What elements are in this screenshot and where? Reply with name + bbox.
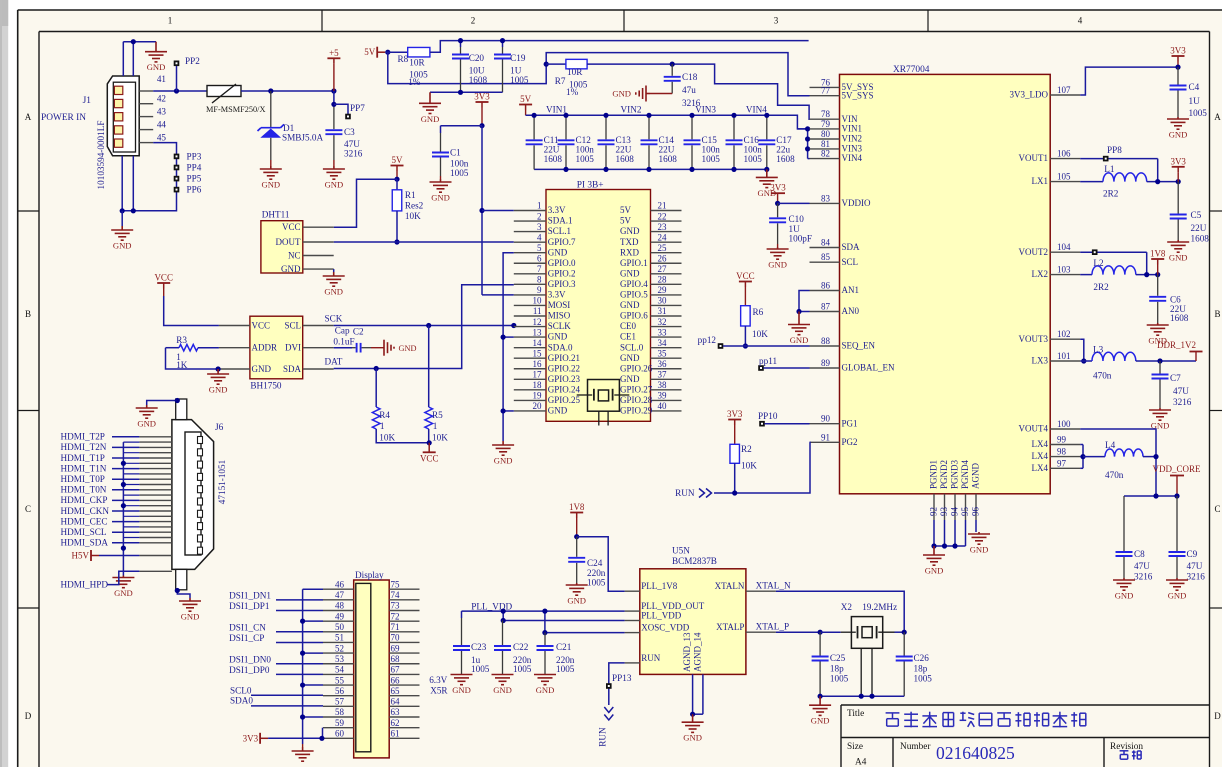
junction R5 top [426, 323, 431, 328]
wire ADDR loop to GND pin [166, 348, 219, 369]
ground below C9 [1166, 578, 1188, 590]
wire 5V down to R7 branch [388, 52, 810, 95]
svg-text:30: 30 [658, 296, 668, 306]
capacitor C22 riser [502, 611, 504, 620]
wire DSI1_CP [276, 641, 323, 643]
wire LX4 to L4 [1083, 456, 1105, 458]
svg-text:XTAL_P: XTAL_P [756, 622, 789, 632]
svg-text:GND: GND [324, 287, 343, 297]
junction VOUT4 node [1153, 493, 1158, 498]
svg-text:1U: 1U [1189, 96, 1201, 106]
pins 42-45 stubs [139, 103, 153, 105]
resistor R1 [396, 179, 398, 190]
ground at AN pins [788, 312, 810, 335]
wire VOUT2 with pad [1080, 251, 1147, 253]
svg-text:GPIO.29: GPIO.29 [620, 406, 653, 416]
PI3B+ pin 16 GPIO.22 [514, 368, 546, 370]
svg-text:47U: 47U [1187, 561, 1203, 571]
capacitor C20 [460, 41, 462, 47]
wire Display pin 55 gnd [303, 684, 323, 686]
junction at J1 top [131, 39, 136, 44]
svg-text:79: 79 [821, 119, 831, 129]
junction L1 output [1176, 179, 1181, 184]
PGND gnd bus [933, 520, 935, 546]
svg-text:GND: GND [209, 385, 228, 395]
svg-text:XTALN: XTALN [715, 581, 745, 591]
PI3B+ pin 19 GPIO.25 [514, 399, 546, 401]
junction 3V3 at pin1 [479, 208, 484, 213]
svg-text:18p: 18p [914, 664, 928, 674]
ground below C5 [1167, 240, 1189, 252]
wire fuse to D1/C3 node [241, 90, 334, 92]
svg-text:SDA.1: SDA.1 [548, 216, 573, 226]
svg-text:L3: L3 [1093, 345, 1104, 355]
svg-text:22U: 22U [659, 145, 675, 155]
svg-text:PGND3: PGND3 [950, 459, 960, 489]
junction BH1750 gnd [216, 366, 221, 371]
svg-text:104: 104 [1057, 242, 1071, 252]
ground at VIN bus end [756, 169, 778, 187]
svg-text:70: 70 [391, 633, 401, 643]
svg-text:DSI1_DN1: DSI1_DN1 [229, 590, 271, 600]
ground below C20/C19 bus [419, 92, 441, 113]
svg-text:47U: 47U [344, 139, 360, 149]
PI3B+ pin 15 GPIO.21 [514, 357, 546, 359]
wire pp11 to pin 89 [764, 367, 810, 369]
svg-text:100n: 100n [450, 159, 469, 169]
XR77004 pin 81 VIN3 [810, 148, 840, 150]
PI3B+ pin 14 SDA.0 [514, 347, 546, 349]
svg-text:3V3: 3V3 [727, 409, 743, 419]
capacitor C7 [1159, 361, 1161, 374]
svg-text:A: A [25, 112, 32, 122]
svg-text:LX3: LX3 [1032, 356, 1049, 366]
svg-text:A: A [1214, 112, 1221, 122]
wire L3 to DDR_1V2 [1136, 360, 1196, 362]
wire to PI pin9 [482, 294, 514, 296]
junction D1 top [268, 88, 273, 93]
junctions X2 legs [859, 694, 864, 699]
ground below J1 [111, 226, 133, 240]
U5N pin XOSC_VDD [625, 632, 640, 634]
testpoint PP4 [174, 165, 180, 171]
junction C26 top [902, 630, 907, 635]
svg-text:pp11: pp11 [759, 356, 777, 366]
Display pin 58 [323, 716, 354, 718]
svg-text:GPIO.0: GPIO.0 [548, 258, 576, 268]
svg-text:GPIO.28: GPIO.28 [620, 395, 653, 405]
svg-text:VIN1: VIN1 [842, 124, 863, 134]
svg-text:C: C [25, 504, 31, 514]
ground below U5N [682, 714, 704, 732]
PI3B+ pin 40 GPIO.29 [651, 410, 682, 412]
ground at J1 top [145, 42, 167, 62]
svg-text:66: 66 [391, 675, 401, 685]
resistor R3 on ADDR [166, 347, 180, 349]
svg-text:DSI1_CN: DSI1_CN [229, 622, 266, 632]
svg-text:VIN4: VIN4 [842, 153, 863, 163]
svg-text:C23: C23 [471, 642, 487, 652]
svg-text:C25: C25 [830, 653, 846, 663]
svg-text:58: 58 [335, 707, 345, 717]
svg-text:1608: 1608 [659, 154, 678, 164]
connector Display [354, 580, 390, 758]
svg-text:DSI1_CP: DSI1_CP [229, 633, 264, 643]
Display pin 48 [323, 610, 354, 612]
svg-text:1: 1 [168, 16, 173, 26]
svg-text:GND: GND [181, 612, 200, 622]
AGND wire [975, 520, 977, 532]
resistor R4 [375, 369, 377, 408]
Display pin 75 [389, 588, 419, 590]
svg-text:XTAL_N: XTAL_N [756, 581, 791, 591]
svg-text:19: 19 [533, 391, 543, 401]
svg-text:GPIO.27: GPIO.27 [620, 384, 653, 394]
svg-text:TXD: TXD [620, 237, 639, 247]
svg-text:XTALP: XTALP [716, 622, 744, 632]
resistor R7 [566, 59, 587, 69]
svg-text:1%: 1% [408, 77, 421, 87]
junctions at J1 bottom [120, 208, 125, 213]
svg-text:GPIO.1: GPIO.1 [620, 258, 648, 268]
svg-text:LX2: LX2 [1032, 269, 1049, 279]
crystal X2 legs [860, 648, 862, 696]
capacitor C25 [819, 632, 821, 655]
ground at BH1750 [207, 369, 229, 384]
svg-text:SMBJ5.0A: SMBJ5.0A [282, 133, 323, 143]
XR77004 pin 97 LX4 [1050, 467, 1080, 469]
svg-text:100n: 100n [576, 145, 595, 155]
svg-text:5: 5 [537, 243, 542, 253]
svg-text:C10: C10 [789, 214, 805, 224]
wire 5V to DHT11 VCC [334, 179, 397, 227]
svg-text:VCC: VCC [154, 273, 173, 283]
svg-text:3V3: 3V3 [474, 92, 490, 102]
svg-text:HDMI_SCL: HDMI_SCL [61, 527, 107, 537]
svg-text:PGND4: PGND4 [960, 459, 970, 489]
svg-text:GND: GND [281, 264, 301, 274]
svg-text:470n: 470n [1105, 470, 1124, 480]
svg-text:22U: 22U [616, 145, 632, 155]
junction C13 top [603, 113, 608, 118]
svg-text:18p: 18p [830, 664, 844, 674]
PI3B+ pin 31 GPIO.6 [651, 315, 682, 317]
inductor L1 [1103, 173, 1147, 182]
svg-text:GND: GND [612, 89, 631, 99]
zone ticks top band [322, 10, 928, 32]
svg-text:GND: GND [567, 596, 586, 606]
svg-text:C8: C8 [1134, 549, 1145, 559]
svg-text:MISO: MISO [548, 311, 571, 321]
svg-text:1005: 1005 [556, 664, 575, 674]
svg-text:B: B [25, 309, 31, 319]
Display pin 61 [389, 737, 419, 739]
svg-text:3216: 3216 [1134, 572, 1153, 582]
svg-text:32: 32 [658, 317, 667, 327]
svg-text:GND: GND [620, 268, 640, 278]
power 3V3 at Display [260, 733, 268, 744]
svg-text:C16: C16 [744, 135, 760, 145]
U5N pin XTALN [746, 590, 776, 592]
svg-text:60: 60 [335, 729, 345, 739]
svg-text:PGND1: PGND1 [929, 460, 939, 489]
Display pin 62 [389, 727, 419, 729]
svg-text:1005: 1005 [914, 673, 933, 683]
connector J1 inner body [113, 82, 135, 152]
svg-text:81: 81 [821, 139, 830, 149]
PI3B+ pin 6 GPIO.0 [514, 262, 546, 264]
wire VCC to BH1750 [164, 296, 219, 326]
svg-text:RUN: RUN [675, 488, 695, 498]
svg-text:CE1: CE1 [620, 332, 636, 342]
svg-text:10K: 10K [379, 433, 395, 443]
junction 5V node [385, 50, 390, 55]
svg-text:90: 90 [821, 414, 831, 424]
J6 bottom tab [176, 569, 187, 589]
svg-text:5V: 5V [392, 155, 404, 165]
svg-text:GND: GND [620, 374, 640, 384]
svg-text:DVI: DVI [285, 343, 301, 353]
PI3B+ pin 10 MOSI [514, 304, 546, 306]
svg-text:GND: GND [620, 353, 640, 363]
svg-text:VIN2: VIN2 [842, 134, 863, 144]
J1 pad 5 [114, 139, 122, 147]
wire LX1 to L1 [1080, 181, 1103, 183]
junction L4/VOUT4 [1153, 454, 1158, 459]
svg-text:HDMI_HPD: HDMI_HPD [61, 580, 109, 590]
svg-text:63: 63 [391, 707, 401, 717]
wire Display pin 49 gnd [303, 620, 323, 622]
junction 3V3/C1 [479, 123, 484, 128]
svg-text:3.3V: 3.3V [548, 290, 566, 300]
junction LX4 [1080, 454, 1085, 459]
wire to PI pin1 [482, 210, 514, 212]
U5N pin PLL_VDD [625, 620, 640, 622]
PI3B+ pin 1 3.3V [514, 210, 546, 212]
svg-text:Number: Number [900, 742, 931, 752]
svg-text:10103594-0001LF: 10103594-0001LF [96, 121, 106, 190]
svg-text:80: 80 [821, 129, 831, 139]
svg-text:51: 51 [335, 633, 344, 643]
svg-text:VCC: VCC [420, 453, 439, 463]
testpoint PP2 [174, 61, 180, 67]
diode D1 SMBJ5.0A [270, 91, 272, 127]
svg-text:GND: GND [147, 62, 166, 72]
svg-text:HDMI_CKN: HDMI_CKN [61, 506, 110, 516]
capacitor C15 [691, 115, 693, 139]
svg-text:69: 69 [391, 643, 401, 653]
capacitor C24 [576, 537, 578, 557]
svg-text:GND: GND [536, 685, 555, 695]
svg-text:+5: +5 [329, 48, 339, 58]
testpoint PP7 [334, 104, 348, 114]
svg-text:VCC: VCC [252, 320, 271, 330]
wire PP10 to pin 90 [765, 423, 810, 425]
svg-text:R1: R1 [405, 190, 416, 200]
svg-text:GND: GND [494, 456, 513, 466]
Display inner body [356, 583, 371, 751]
svg-text:18: 18 [533, 380, 543, 390]
svg-text:93: 93 [939, 507, 949, 517]
wire pp12 to pin 88 [723, 345, 810, 347]
svg-text:C9: C9 [1187, 549, 1198, 559]
svg-text:35: 35 [658, 348, 668, 358]
wire 3V3 to pin 60 [268, 737, 323, 739]
X2 bottom bus [820, 695, 904, 697]
svg-text:HDMI_T0P: HDMI_T0P [61, 474, 105, 484]
ground right of C2 [371, 347, 384, 349]
svg-text:PP6: PP6 [187, 185, 202, 195]
power 5V at VIN bus [519, 105, 532, 111]
svg-text:85: 85 [821, 252, 831, 262]
PI3B+ pin 28 GPIO.4 [651, 283, 682, 285]
Display pin 71 [389, 631, 419, 633]
svg-text:106: 106 [1057, 149, 1071, 159]
svg-text:5V: 5V [620, 216, 632, 226]
junction L2 output [1155, 272, 1160, 277]
svg-text:PI 3B+: PI 3B+ [577, 181, 604, 191]
svg-text:HDMI_T0N: HDMI_T0N [61, 485, 107, 495]
IC PI 3B+ header [546, 190, 651, 422]
svg-text:21: 21 [658, 201, 667, 211]
svg-text:GND: GND [768, 260, 787, 270]
J6 inner pin 8 [198, 523, 203, 530]
svg-text:2R2: 2R2 [1103, 189, 1119, 199]
svg-text:Cap: Cap [335, 326, 350, 336]
svg-text:1: 1 [380, 421, 385, 431]
svg-text:5V_SYS: 5V_SYS [842, 90, 874, 100]
svg-text:R6: R6 [753, 307, 764, 317]
svg-text:GND: GND [1169, 253, 1188, 263]
XR77004 pin 87 AN0 [810, 311, 840, 313]
svg-text:GPIO.3: GPIO.3 [548, 279, 576, 289]
svg-text:3216: 3216 [1187, 572, 1206, 582]
wire DSI1_DP1 [276, 610, 323, 612]
svg-text:GND: GND [548, 406, 568, 416]
svg-text:J6: J6 [215, 423, 224, 433]
svg-text:84: 84 [821, 238, 831, 248]
gnd bus under C20/C19 [430, 91, 503, 93]
IC BH1750 [250, 316, 303, 379]
svg-text:73: 73 [391, 601, 401, 611]
testpoint pp11 [758, 365, 764, 371]
resistor R8 [408, 47, 430, 57]
svg-text:R4: R4 [379, 410, 390, 420]
inductor L4 [1105, 449, 1143, 457]
Display pin 51 [323, 641, 354, 643]
svg-text:1005: 1005 [450, 168, 469, 178]
wire R1 to DOUT net [396, 211, 398, 242]
ground below C8 [1113, 578, 1135, 590]
svg-text:74: 74 [391, 590, 401, 600]
svg-text:HDMI_CKP: HDMI_CKP [61, 495, 108, 505]
svg-text:PLL_VDD: PLL_VDD [471, 602, 512, 612]
svg-text:SDA: SDA [842, 242, 861, 252]
svg-text:R8: R8 [398, 54, 409, 64]
svg-text:LX4: LX4 [1032, 451, 1049, 461]
Display gnd bus [303, 588, 323, 590]
XR77004 pin 99 LX4 [1050, 444, 1080, 446]
XR77004 pin 94 PGND3 [954, 494, 956, 520]
junction C14 bottom [646, 167, 651, 172]
J6 inner pin 9 [198, 535, 203, 542]
svg-text:98: 98 [1057, 447, 1067, 457]
svg-text:X5R: X5R [430, 686, 448, 696]
svg-text:HDMI_CEC: HDMI_CEC [61, 516, 108, 526]
PI3B+ pin 8 GPIO.3 [514, 283, 546, 285]
svg-text:C5: C5 [1191, 210, 1202, 220]
svg-text:D: D [1214, 711, 1221, 721]
svg-text:86: 86 [821, 281, 831, 291]
Display pin 49 [323, 620, 354, 622]
svg-text:38: 38 [658, 380, 668, 390]
connector J6 body [172, 420, 214, 570]
junction R1/DOUT [394, 239, 399, 244]
junction C25 top [818, 630, 823, 635]
svg-text:R7: R7 [555, 76, 566, 86]
svg-text:44: 44 [157, 120, 167, 130]
svg-text:3V3: 3V3 [243, 733, 259, 743]
svg-text:34: 34 [658, 338, 668, 348]
svg-text:29: 29 [658, 285, 668, 295]
svg-text:C14: C14 [659, 135, 675, 145]
wire VOUT3 down to LX3 [1080, 339, 1084, 361]
RUN net wire to PG2 [714, 442, 810, 493]
svg-text:C18: C18 [682, 72, 698, 82]
PI3B+ pin 12 SCLK [514, 326, 546, 328]
svg-text:SCL.0: SCL.0 [620, 342, 644, 352]
power 3V3 at R2 [728, 420, 741, 426]
svg-text:49: 49 [335, 611, 345, 621]
zone ticks right band [1210, 211, 1222, 608]
wire DSI1_DN0 [276, 663, 323, 665]
power VCC below R4/R5 [423, 443, 436, 453]
resistor R5 [428, 326, 430, 408]
svg-text:GPIO.23: GPIO.23 [548, 374, 581, 384]
svg-text:VOUT1: VOUT1 [1019, 153, 1049, 163]
svg-text:VOUT2: VOUT2 [1019, 247, 1049, 257]
PI3B+ pin 39 GPIO.28 [651, 399, 682, 401]
capacitor C8 [1123, 496, 1125, 551]
capacitor C19 [502, 41, 504, 47]
svg-text:1U: 1U [510, 65, 522, 75]
Display pin 74 [389, 599, 419, 601]
capacitor C16 [733, 115, 735, 139]
PI3B+ pin 4 GPIO.7 [514, 241, 546, 243]
J6 inner pin 6 [198, 498, 203, 505]
capacitor C5 [1177, 182, 1179, 214]
PI3B+ pin 23 GND [651, 231, 682, 233]
wire DSI1_DN1 [276, 599, 323, 601]
svg-text:GPIO.7: GPIO.7 [548, 237, 576, 247]
svg-text:AGND_13: AGND_13 [682, 632, 692, 672]
svg-text:Title: Title [847, 709, 864, 719]
svg-text:10R: 10R [409, 58, 425, 68]
svg-text:C1: C1 [450, 148, 461, 158]
svg-text:22u: 22u [776, 145, 790, 155]
ground at J6 top [136, 405, 158, 418]
wire PLL_VDD_OUT [462, 610, 625, 612]
svg-text:Display: Display [355, 570, 384, 580]
svg-text:2R2: 2R2 [1093, 282, 1109, 292]
wire AN1/AN0 to gnd [799, 291, 810, 312]
ground below C10 [767, 247, 789, 259]
PI3B+ pin 26 GPIO.1 [651, 262, 682, 264]
svg-text:10: 10 [533, 296, 543, 306]
svg-text:3V3: 3V3 [770, 183, 786, 193]
svg-text:SCL: SCL [842, 257, 859, 267]
J6 inner pin 2 [198, 449, 203, 456]
